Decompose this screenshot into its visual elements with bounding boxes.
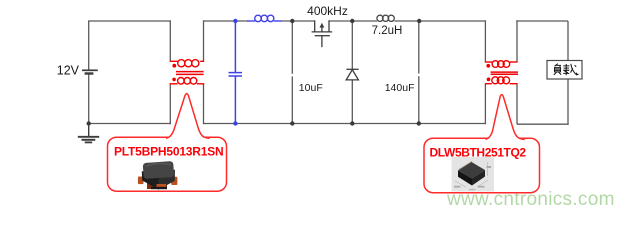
mosfet Q1 arrow head	[320, 23, 325, 28]
wire battery top to rail	[88, 21, 90, 70]
wire top rail left segment	[88, 20, 170, 22]
node diode top junction	[350, 19, 354, 23]
glyph 载	[563, 64, 578, 76]
wire T2 top-left vertical	[484, 20, 486, 61]
watermark www.cntronics.com	[447, 189, 615, 211]
callout pointer right	[486, 95, 525, 141]
node 140uF bottom junction	[417, 121, 421, 125]
diode D1	[346, 69, 358, 80]
wire T1 top-left vertical	[169, 20, 171, 61]
node blue cap top	[233, 19, 237, 23]
transformer T1 core	[176, 72, 204, 75]
wire bottom rail left segment	[88, 123, 171, 125]
wire T2 top-right vertical	[516, 20, 518, 61]
callout pointer left	[166, 94, 210, 140]
svg-text:PLT5BPH5013R1SN: PLT5BPH5013R1SN	[114, 145, 224, 159]
T1 secondary phase dot	[172, 78, 176, 82]
wire T1 bottom-right vertical	[203, 84, 205, 124]
wire top rail T1 to blue inductor	[204, 20, 248, 22]
wire top rail mosfet to T2	[329, 20, 377, 22]
transformer T2 secondary winding	[485, 77, 518, 84]
node 10uF bottom junction	[290, 121, 294, 125]
wire T2 bottom-right vertical	[516, 84, 518, 124]
wire T1 bottom-left vertical	[169, 84, 171, 124]
wire T2 bottom-left vertical	[484, 84, 486, 124]
transformer T2 core	[491, 72, 518, 74]
wire load bottom vertical	[567, 79, 569, 125]
node diode bottom junction	[350, 121, 354, 125]
capacitor C1 (blue input cap)	[229, 21, 243, 124]
wire diode branch top	[351, 21, 353, 69]
wire T1 top-right vertical	[203, 20, 205, 61]
transformer T1 primary winding	[170, 60, 205, 67]
battery V1 12V	[82, 70, 98, 73]
svg-text:140uF: 140uF	[385, 82, 415, 94]
wire 10uF branch bottom	[291, 76, 293, 123]
transformer T2 primary winding	[485, 61, 518, 68]
svg-text:12V: 12V	[57, 64, 80, 78]
wire top rail 7.2uH to corner	[394, 20, 485, 22]
wire battery bottom	[88, 73, 90, 123]
wire diode branch bottom	[351, 80, 353, 124]
inductor L1 (blue)	[247, 15, 282, 22]
wire top rail T2 to load corner	[516, 20, 568, 22]
transformer T1 secondary winding	[170, 78, 205, 85]
svg-text:7.2uH: 7.2uH	[372, 25, 403, 37]
wire bottom rail main	[204, 123, 487, 125]
photo DLW chip	[452, 157, 495, 192]
wire top rail blue inductor to mosfet	[282, 20, 315, 22]
load box 负载	[547, 61, 582, 80]
callout box PLT5BPH5013R1SN	[108, 137, 227, 191]
node blue cap bottom	[233, 121, 237, 125]
ground	[78, 124, 99, 143]
mosfet Q1	[312, 20, 333, 47]
T2 primary phase dot	[486, 64, 490, 68]
wire 10uF branch top	[291, 21, 293, 74]
callout box DLW5BTH251TQ2	[424, 138, 540, 193]
wire 140uF branch top	[418, 21, 420, 74]
svg-text:400kHz: 400kHz	[307, 4, 348, 18]
node 10uF top junction	[290, 19, 294, 23]
T1 primary phase dot	[172, 64, 176, 68]
inductor L2 7.2uH	[377, 15, 394, 21]
wire 140uF branch bottom	[418, 76, 420, 123]
wire bottom right horizontal	[517, 123, 569, 125]
svg-text:10uF: 10uF	[299, 82, 323, 94]
glyph 负	[554, 64, 561, 75]
T2 secondary phase dot	[487, 78, 491, 82]
node battery bottom junction	[87, 121, 91, 125]
node 140uF top junction	[417, 19, 421, 23]
photo PLT inductor	[138, 161, 178, 190]
wire load top vertical	[567, 21, 569, 61]
